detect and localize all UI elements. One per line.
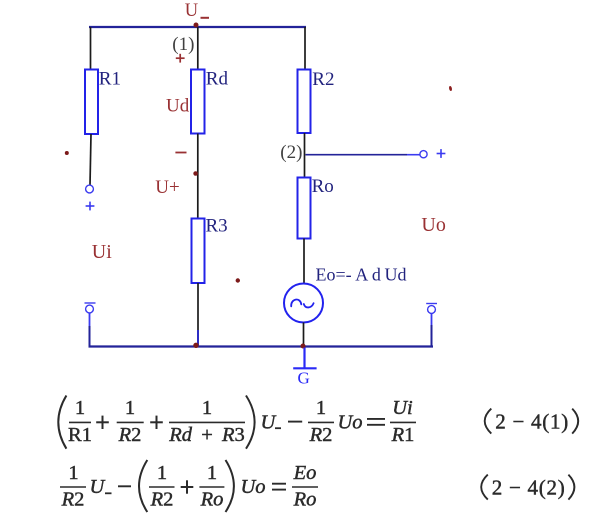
terminal output + (right): [420, 151, 427, 158]
plus mark below node (1): [176, 54, 185, 63]
svg-text:R2: R2: [312, 69, 334, 90]
stray mark upper right: [449, 86, 453, 92]
wire below R1: [90, 134, 91, 185]
wire source to bottom bus: [303, 323, 305, 347]
sine symbol inside source: [291, 300, 301, 307]
wire lower-left (terminal to bottom bus): [89, 314, 91, 327]
svg-text:Rd + R3: Rd + R3: [168, 424, 245, 446]
wire output tap (node 2 to terminal): [306, 154, 408, 156]
big close paren: [226, 460, 234, 512]
svg-text:1: 1: [202, 397, 212, 419]
minus mark below Rd: [175, 152, 186, 154]
svg-text:(1): (1): [172, 34, 194, 55]
wire left top (to R1): [90, 27, 92, 70]
resistor Rd: [191, 70, 205, 134]
svg-text:Eo=- A d Ud: Eo=- A d Ud: [316, 265, 407, 285]
wire Ro to source: [303, 239, 305, 285]
svg-text:Ui: Ui: [392, 397, 413, 419]
wire Rd to R3: [197, 134, 199, 219]
resistor R3: [192, 219, 205, 284]
resistor Ro: [298, 178, 311, 239]
equation (2-4(1)): [58, 396, 578, 449]
minus: [118, 485, 131, 487]
stray dot left: [65, 151, 69, 155]
svg-text:U+: U+: [155, 177, 179, 198]
svg-text:1: 1: [157, 462, 167, 484]
svg-text:R2: R2: [309, 424, 333, 446]
node bottom bus center dot: [301, 344, 306, 349]
label U_: [185, 1, 209, 21]
node bottom bus left dot: [193, 343, 198, 348]
source E0 (controlled AC source): [284, 284, 323, 323]
plus: [150, 416, 163, 429]
plus: [96, 416, 109, 429]
wire top bus: [89, 26, 306, 28]
big open paren: [139, 460, 147, 512]
svg-text:1: 1: [75, 397, 85, 419]
wire bottom bus: [89, 345, 434, 347]
wire R2 to Ro: [304, 133, 306, 178]
svg-text:Uo: Uo: [241, 476, 266, 498]
resistor R2: [298, 70, 311, 134]
svg-text:1: 1: [207, 462, 217, 484]
svg-text:(2): (2): [280, 142, 302, 163]
svg-text:R2: R2: [61, 489, 85, 511]
wire R3 to bottom bus: [197, 283, 199, 330]
ground G: [293, 348, 316, 369]
svg-text:Rd: Rd: [206, 68, 229, 89]
terminal output - (lower right): [426, 304, 437, 314]
terminal input - (lower-left): [85, 303, 96, 313]
svg-text:R1: R1: [391, 424, 415, 446]
svg-text:R2: R2: [150, 489, 174, 511]
plus mark of input terminal: [86, 202, 95, 211]
svg-text:Ro: Ro: [200, 489, 224, 511]
svg-text:R1: R1: [99, 68, 121, 89]
equation (2-4(2)): [60, 460, 574, 512]
node U+ dot: [193, 171, 198, 176]
svg-text:1: 1: [316, 397, 326, 419]
svg-text:Uo: Uo: [338, 412, 363, 434]
svg-text:Ui: Ui: [92, 241, 112, 263]
plus: [181, 480, 194, 493]
wire right top (bus to R2): [304, 27, 306, 70]
svg-text:U: U: [185, 1, 198, 21]
node U_ junction dot: [194, 23, 199, 28]
plus mark of output terminal: [437, 149, 446, 158]
big close paren: [246, 396, 255, 449]
minus: [288, 421, 302, 423]
equals: [272, 484, 286, 490]
svg-text:2 − 4(2): 2 − 4(2): [492, 476, 566, 500]
svg-text:Ud: Ud: [166, 95, 190, 116]
equals: [367, 419, 385, 425]
svg-text:Uo: Uo: [421, 214, 445, 236]
wire lower-right (terminal to bottom bus): [431, 314, 433, 325]
stray dot center: [236, 278, 240, 282]
svg-text:R1: R1: [68, 424, 92, 446]
svg-text:R3: R3: [206, 216, 228, 237]
svg-text:Eo: Eo: [293, 462, 317, 484]
tag (2-4(2)): [481, 475, 488, 500]
svg-text:Ro: Ro: [293, 489, 317, 511]
svg-text:G: G: [298, 369, 310, 388]
wire center top (bus to Rd): [197, 27, 199, 70]
svg-text:1: 1: [125, 397, 135, 419]
svg-text:Ro: Ro: [312, 176, 334, 197]
svg-text:U: U: [90, 476, 106, 498]
tag (2-4(1)): [485, 409, 492, 434]
svg-text:1: 1: [68, 462, 78, 484]
svg-text:U: U: [261, 412, 277, 434]
resistor R1: [85, 70, 98, 135]
svg-text:R2: R2: [118, 424, 142, 446]
svg-text:2 − 4(1): 2 − 4(1): [495, 410, 569, 434]
terminal input + (upper-left): [86, 185, 94, 193]
big open paren: [58, 396, 66, 449]
